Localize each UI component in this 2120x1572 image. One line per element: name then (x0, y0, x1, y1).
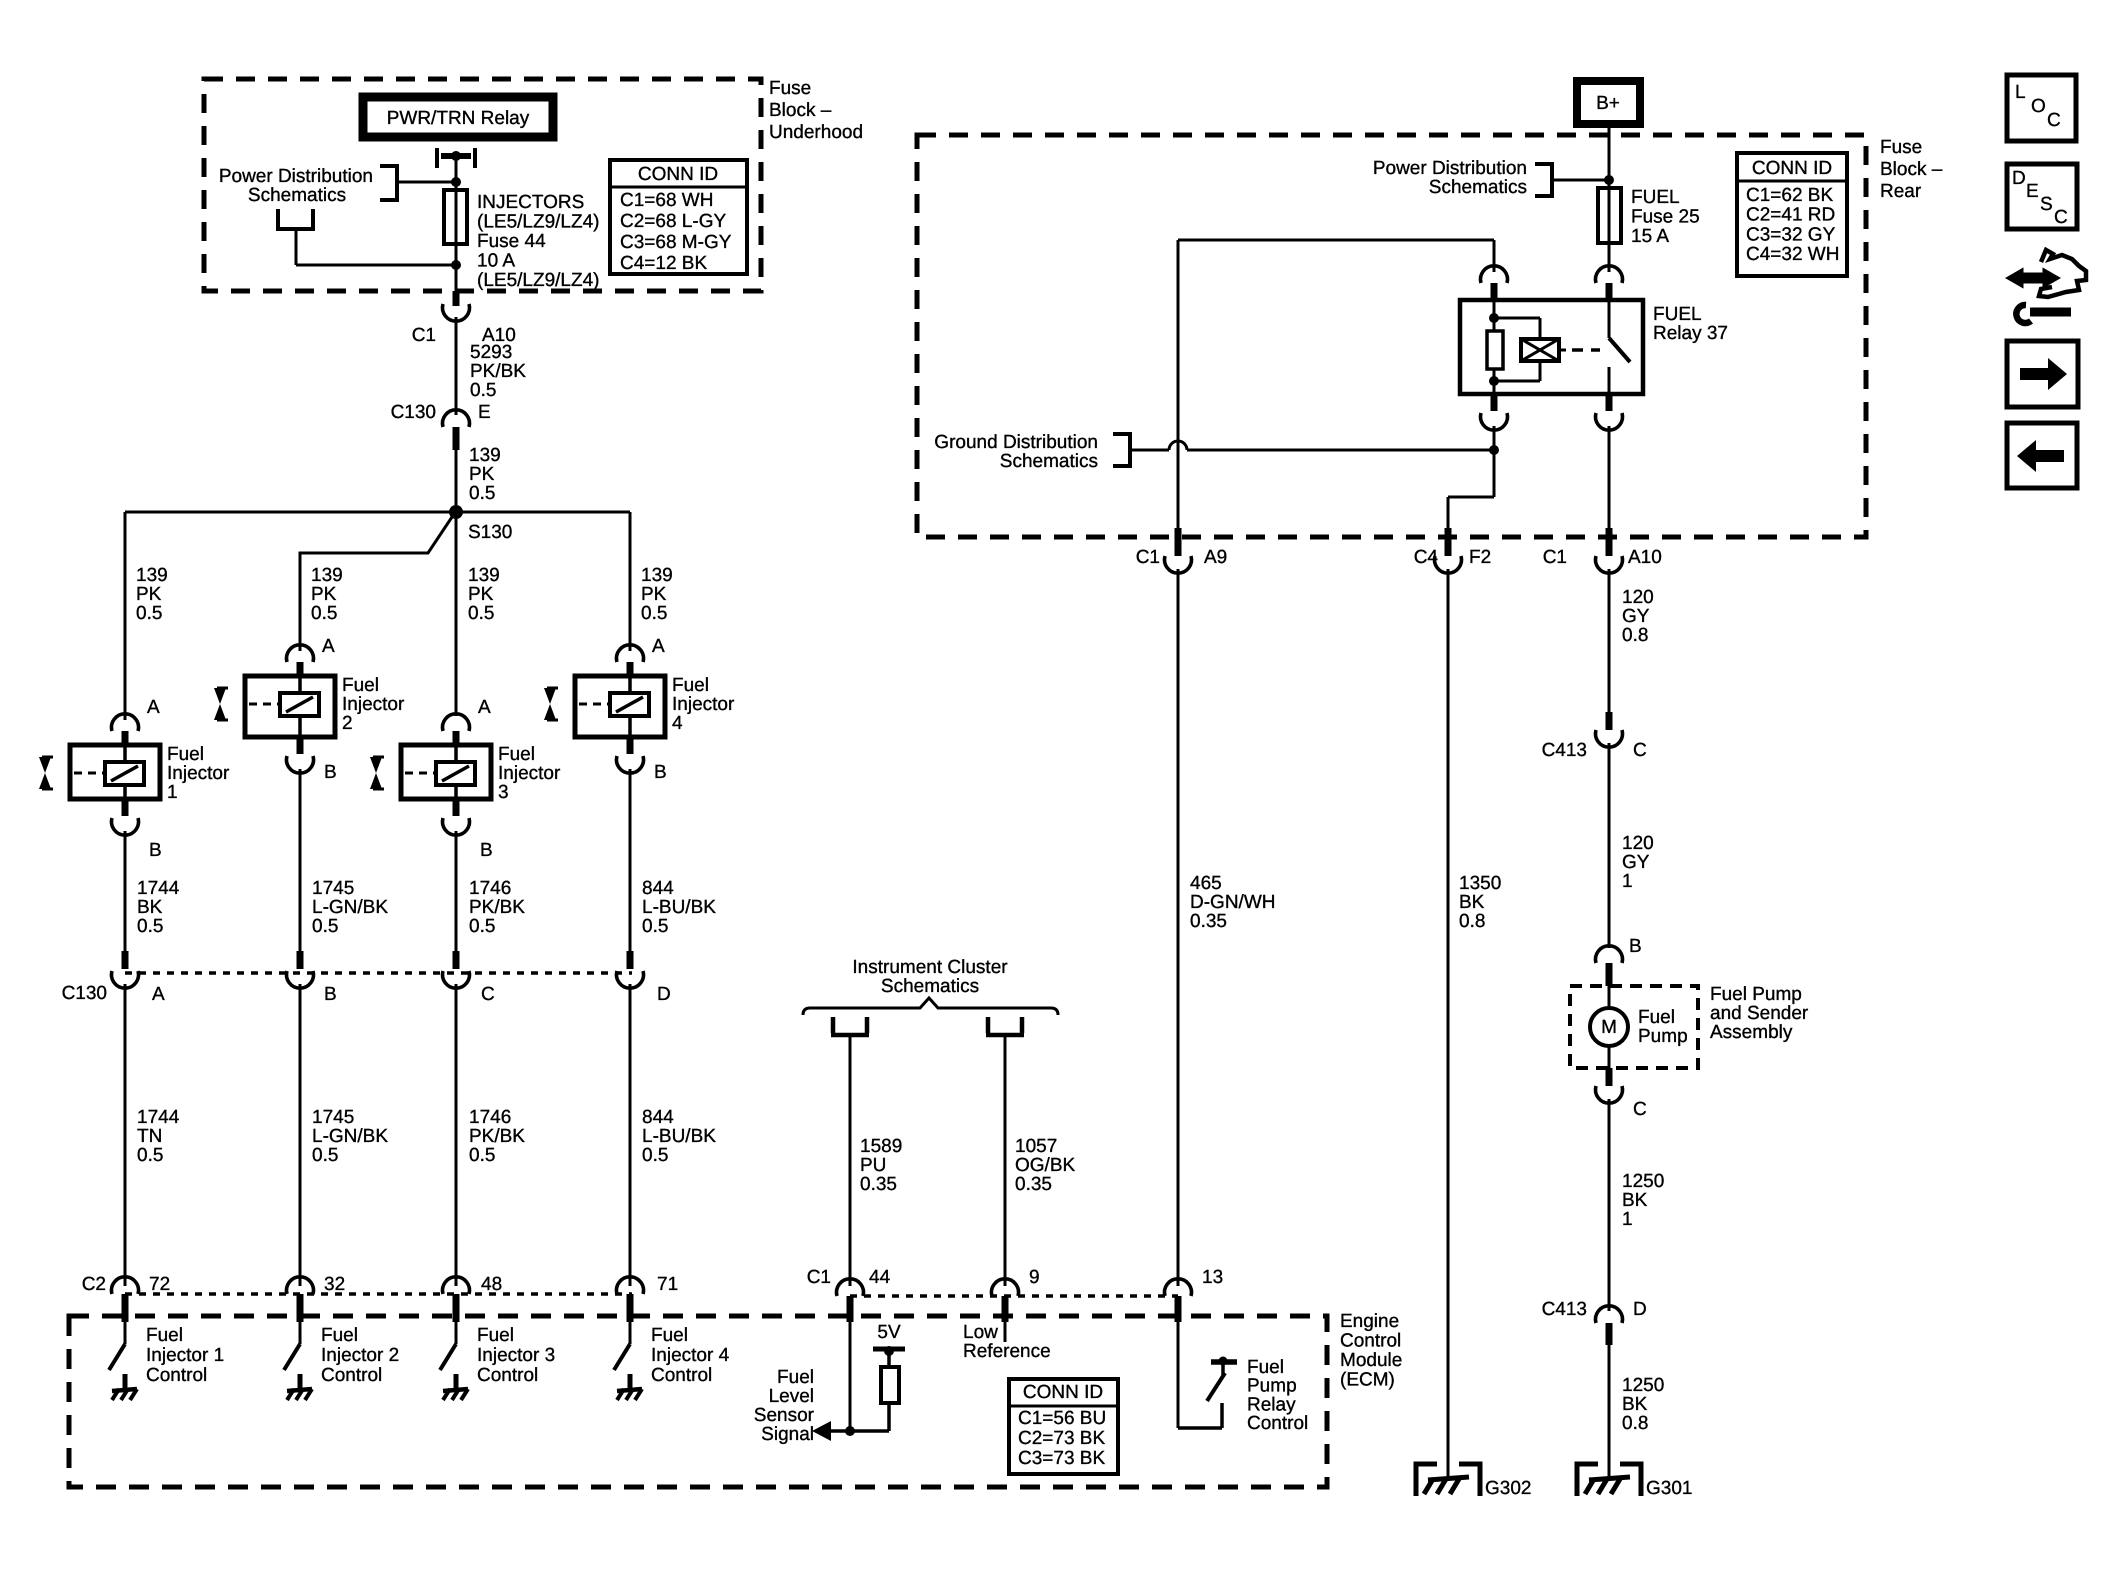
svg-text:139: 139 (136, 565, 168, 586)
svg-text:S: S (2040, 194, 2053, 215)
svg-text:1746: 1746 (469, 1107, 511, 1128)
svg-text:BK: BK (1622, 1394, 1648, 1415)
svg-text:0.8: 0.8 (1459, 911, 1485, 932)
wire 1250 BK 1 (1608, 1099, 1611, 1311)
fuse 25 (FUEL 15A) (1598, 188, 1621, 243)
icon previous-page arrow button (2007, 423, 2077, 488)
svg-text:1589: 1589 (860, 1136, 902, 1157)
svg-text:1250: 1250 (1622, 1375, 1664, 1396)
svg-text:A: A (147, 697, 160, 718)
svg-text:Schematics: Schematics (881, 976, 979, 997)
svg-text:Module: Module (1340, 1350, 1402, 1371)
svg-text:0.5: 0.5 (469, 483, 495, 504)
svg-text:INJECTORS: INJECTORS (477, 192, 584, 213)
svg-text:BK: BK (137, 897, 163, 918)
svg-text:120: 120 (1622, 587, 1654, 608)
connector C130 row pins A-D (122, 951, 129, 969)
brace to instrument cluster (803, 998, 1058, 1015)
svg-text:C413: C413 (1542, 1299, 1587, 1320)
svg-text:Instrument Cluster: Instrument Cluster (852, 957, 1008, 978)
icon DESC button (2007, 164, 2077, 229)
svg-text:PK/BK: PK/BK (469, 1126, 525, 1147)
svg-text:C1: C1 (1543, 547, 1567, 568)
connector C1 pin A9 (rear exit) (1175, 528, 1182, 556)
svg-text:Block –: Block – (1880, 159, 1943, 180)
svg-text:TN: TN (137, 1126, 162, 1147)
svg-text:0.35: 0.35 (1190, 911, 1227, 932)
svg-text:FUEL: FUEL (1653, 304, 1702, 325)
svg-text:1057: 1057 (1015, 1136, 1057, 1157)
wire bracket to B+ feed (1552, 179, 1609, 182)
wire 1350 BK 0.8 (1447, 569, 1450, 1478)
svg-text:0.8: 0.8 (1622, 625, 1648, 646)
svg-text:10 A: 10 A (477, 251, 515, 272)
svg-text:Fuse 25: Fuse 25 (1631, 207, 1700, 228)
wire 465 D-GN/WH 0.35 (1177, 569, 1180, 1286)
resistor 5V pull-up (887, 1351, 891, 1367)
svg-text:C2: C2 (82, 1274, 106, 1295)
wire B+ to fuse 25 (1608, 124, 1611, 190)
svg-text:C2=73 BK: C2=73 BK (1018, 1428, 1105, 1449)
fuse 44 (INJECTORS 10A) (444, 190, 467, 244)
svg-text:PK/BK: PK/BK (470, 361, 526, 382)
svg-text:(ECM): (ECM) (1340, 1370, 1395, 1391)
junction dot below fuse 44 (451, 260, 461, 270)
connector C4 pin F2 (rear exit) (1445, 528, 1452, 556)
fuel injector 2 control driver + ground (284, 1344, 300, 1370)
svg-text:A: A (322, 636, 335, 657)
svg-text:0.35: 0.35 (1015, 1174, 1052, 1195)
fuel injector 4 control driver + ground (614, 1344, 630, 1370)
icon jump-to-wiring (arrows and wrench) (2008, 270, 2058, 286)
svg-text:CONN ID: CONN ID (638, 164, 718, 185)
svg-text:Fuel: Fuel (1638, 1007, 1675, 1028)
wire branch to injector 2 column (300, 517, 452, 651)
splice S130 (449, 505, 463, 519)
svg-text:C: C (481, 984, 495, 1005)
relay contact symbol under PWR/TRN Relay (435, 148, 439, 168)
wire 139 PK 0.5 branch 3 (455, 512, 458, 716)
svg-text:PK: PK (469, 464, 495, 485)
svg-text:E: E (2026, 181, 2039, 202)
svg-text:D-GN/WH: D-GN/WH (1190, 892, 1275, 913)
svg-text:OG/BK: OG/BK (1015, 1155, 1076, 1176)
instrument cluster component bracket (fuel gauge) (831, 1017, 869, 1035)
svg-text:Schematics: Schematics (248, 185, 346, 206)
wire PWR/TRN relay to fuse 44 (455, 158, 458, 190)
svg-text:32: 32 (324, 1274, 345, 1295)
svg-text:C1=62 BK: C1=62 BK (1746, 185, 1833, 206)
svg-text:Low: Low (963, 1322, 998, 1343)
fuel pump and sender assembly dashed box (1570, 986, 1698, 1068)
fuel pump relay control driver (1177, 1322, 1180, 1428)
connector C1 pin A10 (rear exit) (1606, 528, 1613, 556)
svg-text:B: B (324, 762, 337, 783)
svg-text:1746: 1746 (469, 878, 511, 899)
svg-text:1745: 1745 (312, 1107, 354, 1128)
svg-text:0.5: 0.5 (469, 1145, 495, 1166)
svg-text:Block –: Block – (769, 100, 832, 121)
junction dot B+ feed (1604, 175, 1614, 185)
connector C1 (ECM) dashed row line (850, 1294, 1178, 1298)
wire relay switch to C1 A10 (1608, 426, 1611, 528)
connector C413 pin C (1606, 712, 1613, 730)
svg-text:Fuel: Fuel (477, 1325, 514, 1346)
svg-text:Assembly: Assembly (1710, 1022, 1793, 1043)
svg-text:71: 71 (657, 1274, 678, 1295)
svg-text:0.5: 0.5 (468, 603, 494, 624)
svg-text:A10: A10 (1628, 547, 1662, 568)
battery feed B+ bold box (1577, 81, 1640, 124)
svg-text:Injector: Injector (167, 763, 230, 784)
low reference stub (1004, 1322, 1007, 1342)
PWR/TRN Relay bold box (363, 97, 553, 137)
svg-text:B+: B+ (1596, 93, 1620, 114)
svg-text:Injector: Injector (672, 694, 735, 715)
svg-text:C: C (2047, 110, 2061, 131)
svg-text:L-BU/BK: L-BU/BK (642, 1126, 716, 1147)
svg-text:0.5: 0.5 (137, 1145, 163, 1166)
svg-text:PWR/TRN Relay: PWR/TRN Relay (387, 108, 530, 129)
svg-text:C130: C130 (62, 983, 107, 1004)
svg-text:L-GN/BK: L-GN/BK (312, 897, 388, 918)
svg-text:Control: Control (146, 1365, 207, 1386)
svg-text:Fuel: Fuel (777, 1367, 814, 1388)
svg-text:L-BU/BK: L-BU/BK (642, 897, 716, 918)
svg-text:G302: G302 (1485, 1478, 1531, 1499)
svg-text:A9: A9 (1204, 547, 1227, 568)
svg-text:Fuse: Fuse (769, 78, 811, 99)
wire fuse 25 to relay (1608, 243, 1611, 272)
connector C1 pin A10 (underhood exit) (453, 291, 460, 306)
svg-text:Fuse: Fuse (1880, 137, 1922, 158)
svg-text:Engine: Engine (1340, 1311, 1399, 1332)
svg-text:Control: Control (477, 1365, 538, 1386)
svg-text:C2=68 L-GY: C2=68 L-GY (620, 211, 726, 232)
svg-text:139: 139 (311, 565, 343, 586)
off-page bracket to Power Distribution (lower) (276, 209, 315, 229)
svg-text:A: A (478, 697, 491, 718)
svg-text:S130: S130 (468, 522, 512, 543)
svg-text:Level: Level (769, 1386, 814, 1407)
svg-text:C413: C413 (1542, 740, 1587, 761)
svg-text:1: 1 (1622, 1209, 1633, 1230)
svg-text:120: 120 (1622, 833, 1654, 854)
svg-text:C4: C4 (1414, 547, 1439, 568)
junction dot above fuse 44 (451, 177, 461, 187)
svg-text:Relay 37: Relay 37 (1653, 323, 1728, 344)
svg-text:139: 139 (468, 565, 500, 586)
svg-text:CONN ID: CONN ID (1752, 158, 1832, 179)
svg-text:C1: C1 (412, 325, 436, 346)
connector fuel relay pin 86 (top left) (1481, 266, 1508, 283)
CONN ID table (underhood) (610, 160, 747, 274)
svg-text:C: C (2054, 207, 2068, 228)
svg-text:C4=32 WH: C4=32 WH (1746, 244, 1839, 265)
ground G301 (1577, 1464, 1641, 1496)
svg-text:Rear: Rear (1880, 181, 1922, 202)
relay switch (1608, 301, 1611, 338)
ECM dashed enclosure (69, 1316, 1327, 1487)
svg-text:844: 844 (642, 878, 674, 899)
wire 5293 PK/BK 0.5 (455, 317, 458, 415)
connector fuel pump pin B (1596, 946, 1623, 963)
svg-text:Fuel Pump: Fuel Pump (1710, 984, 1802, 1005)
svg-text:C3=68 M-GY: C3=68 M-GY (620, 232, 732, 253)
off-page bracket ground distribution (1113, 434, 1130, 466)
CONN ID table (rear) (1737, 153, 1847, 276)
svg-text:13: 13 (1202, 1267, 1223, 1288)
svg-text:FUEL: FUEL (1631, 187, 1680, 208)
svg-text:0.5: 0.5 (312, 916, 338, 937)
instrument cluster component bracket (low ref) (986, 1017, 1024, 1035)
svg-text:Fuse 44: Fuse 44 (477, 231, 546, 252)
connector C2 row pins (112, 1277, 139, 1294)
connector C130 dashed row line (125, 971, 632, 975)
svg-text:C130: C130 (391, 402, 436, 423)
wire relay coil feed from ECM side (1493, 240, 1496, 272)
svg-text:PK/BK: PK/BK (469, 897, 525, 918)
svg-text:C3=32 GY: C3=32 GY (1746, 224, 1836, 245)
svg-text:Underhood: Underhood (769, 122, 863, 143)
svg-text:139: 139 (641, 565, 673, 586)
svg-text:B: B (324, 984, 337, 1005)
svg-text:Schematics: Schematics (1000, 451, 1098, 472)
svg-text:C: C (1633, 1099, 1647, 1120)
svg-text:9: 9 (1029, 1267, 1040, 1288)
off-page bracket to Power Distribution (upper) (380, 166, 397, 200)
svg-text:0.8: 0.8 (1622, 1413, 1648, 1434)
svg-text:C1=68 WH: C1=68 WH (620, 190, 713, 211)
connector fuel relay pin 30 (bottom right) (1606, 394, 1613, 411)
svg-text:5293: 5293 (470, 342, 512, 363)
svg-text:C2=41 RD: C2=41 RD (1746, 205, 1835, 226)
svg-text:C1: C1 (1136, 547, 1160, 568)
svg-text:Control: Control (1247, 1413, 1308, 1434)
connector C1 pin 13 (1165, 1279, 1192, 1296)
wire 1057 OG/BK 0.35 (1004, 1037, 1007, 1286)
svg-text:G301: G301 (1646, 1478, 1692, 1499)
svg-text:Ground Distribution: Ground Distribution (934, 432, 1098, 453)
svg-text:Fuel: Fuel (498, 744, 535, 765)
svg-text:C4=12 BK: C4=12 BK (620, 253, 707, 274)
wire fuel level sensor signal (849, 1322, 852, 1431)
fuel relay 37 box (1460, 300, 1643, 394)
svg-text:C1: C1 (807, 1267, 831, 1288)
wire 120 GY 1 (1608, 743, 1611, 948)
svg-text:Schematics: Schematics (1429, 177, 1527, 198)
svg-text:Injector: Injector (498, 763, 561, 784)
svg-text:Fuel: Fuel (651, 1325, 688, 1346)
svg-text:Injector 3: Injector 3 (477, 1345, 555, 1366)
svg-text:1744: 1744 (137, 878, 180, 899)
svg-text:44: 44 (869, 1267, 891, 1288)
ground G302 (1416, 1464, 1480, 1496)
svg-text:Signal: Signal (761, 1424, 814, 1445)
svg-text:Control: Control (651, 1365, 712, 1386)
wire 1589 PU 0.35 (849, 1037, 852, 1286)
svg-text:1744: 1744 (137, 1107, 180, 1128)
svg-text:Pump: Pump (1638, 1026, 1688, 1047)
wire bracket to main feed (397, 181, 456, 184)
svg-text:139: 139 (469, 445, 501, 466)
svg-text:and Sender: and Sender (1710, 1003, 1809, 1024)
svg-text:72: 72 (149, 1274, 170, 1295)
junction dot relay coil ground (1489, 445, 1499, 455)
svg-text:A: A (652, 636, 665, 657)
wire through fuse 44 (455, 190, 458, 291)
relay coil (1493, 301, 1496, 331)
svg-text:5V: 5V (877, 1322, 901, 1343)
svg-text:D: D (1633, 1299, 1647, 1320)
svg-text:GY: GY (1622, 852, 1650, 873)
connector C413 pin D (1596, 1306, 1623, 1323)
svg-text:0.5: 0.5 (470, 380, 496, 401)
fuse block - rear dashed enclosure (917, 135, 1866, 537)
svg-text:Power Distribution: Power Distribution (219, 166, 373, 187)
wire ground distribution with hop over coil feed (1130, 449, 1169, 452)
connector C2 dashed row line (125, 1292, 632, 1296)
svg-text:4: 4 (672, 713, 683, 734)
svg-text:1745: 1745 (312, 878, 354, 899)
svg-text:D: D (657, 984, 671, 1005)
svg-text:GY: GY (1622, 606, 1650, 627)
connector C130 pin E (443, 410, 470, 427)
svg-text:B: B (654, 762, 667, 783)
svg-text:L: L (2015, 82, 2026, 103)
svg-text:1: 1 (1622, 871, 1633, 892)
svg-text:465: 465 (1190, 873, 1222, 894)
svg-text:C3=73 BK: C3=73 BK (1018, 1448, 1105, 1469)
wire splice bus to injectors (125, 511, 630, 514)
svg-text:B: B (1629, 936, 1642, 957)
connector C1 pin 9 (992, 1279, 1019, 1296)
svg-text:2: 2 (342, 713, 353, 734)
wire 139 PK 0.5 branch 4 (629, 512, 632, 651)
svg-text:Fuel: Fuel (672, 675, 709, 696)
svg-text:Control: Control (1340, 1331, 1401, 1352)
svg-text:Fuel: Fuel (146, 1325, 183, 1346)
svg-text:0.35: 0.35 (860, 1174, 897, 1195)
svg-text:Control: Control (321, 1365, 382, 1386)
svg-text:0.5: 0.5 (137, 916, 163, 937)
svg-text:0.5: 0.5 (642, 916, 668, 937)
svg-text:Power Distribution: Power Distribution (1373, 158, 1527, 179)
fuel injector 3 control driver + ground (440, 1344, 456, 1370)
svg-text:Fuel: Fuel (321, 1325, 358, 1346)
off-page bracket power distribution (rear) (1535, 164, 1552, 196)
svg-text:B: B (480, 840, 493, 861)
connector fuel relay pin 87 (top right) (1596, 266, 1623, 283)
wire 139 PK 0.5 branch 1 (124, 512, 127, 720)
fuel injector 1 control driver + ground (109, 1344, 125, 1370)
svg-text:PK: PK (468, 584, 494, 605)
svg-text:3: 3 (498, 782, 509, 803)
svg-text:PK: PK (136, 584, 162, 605)
svg-text:0.5: 0.5 (642, 1145, 668, 1166)
svg-text:C: C (1633, 740, 1647, 761)
svg-text:B: B (149, 840, 162, 861)
wire 139 PK 0.5 to splice (455, 450, 458, 512)
svg-text:Fuel: Fuel (342, 675, 379, 696)
svg-text:BK: BK (1459, 892, 1485, 913)
svg-text:Fuel: Fuel (167, 744, 204, 765)
svg-text:Sensor: Sensor (754, 1405, 815, 1426)
fuel pump motor (1608, 986, 1611, 1008)
svg-text:PK: PK (641, 584, 667, 605)
svg-text:1350: 1350 (1459, 873, 1501, 894)
arrow fuel level sensor signal (812, 1421, 831, 1441)
svg-text:L-GN/BK: L-GN/BK (312, 1126, 388, 1147)
relay armature linkage (1494, 317, 1540, 320)
svg-text:0.5: 0.5 (312, 1145, 338, 1166)
svg-text:BK: BK (1622, 1190, 1648, 1211)
svg-text:0.5: 0.5 (469, 916, 495, 937)
svg-text:0.5: 0.5 (311, 603, 337, 624)
svg-text:0.5: 0.5 (641, 603, 667, 624)
svg-text:Injector: Injector (342, 694, 405, 715)
svg-text:CONN ID: CONN ID (1023, 1382, 1103, 1403)
svg-text:Injector 2: Injector 2 (321, 1345, 399, 1366)
svg-text:Injector 1: Injector 1 (146, 1345, 224, 1366)
wire lower bracket to fuse output (295, 229, 298, 265)
connector fuel relay pin 85 (bottom left) (1491, 394, 1498, 411)
svg-text:(LE5/LZ9/LZ4): (LE5/LZ9/LZ4) (477, 270, 600, 291)
svg-text:1250: 1250 (1622, 1171, 1664, 1192)
svg-text:1: 1 (167, 782, 178, 803)
svg-text:M: M (1601, 1017, 1617, 1038)
CONN ID table (ECM) (1009, 1379, 1118, 1474)
svg-text:PK: PK (311, 584, 337, 605)
wire 120 GY 0.8 (1608, 569, 1611, 712)
svg-text:PU: PU (860, 1155, 886, 1176)
wire 1250 BK 0.8 (1608, 1345, 1611, 1478)
svg-text:Injector 4: Injector 4 (651, 1345, 730, 1366)
svg-text:A: A (152, 984, 165, 1005)
svg-text:48: 48 (481, 1274, 502, 1295)
svg-text:15 A: 15 A (1631, 226, 1669, 247)
svg-text:(LE5/LZ9/LZ4): (LE5/LZ9/LZ4) (477, 212, 600, 233)
svg-text:O: O (2031, 96, 2046, 117)
icon next-page arrow button (2007, 341, 2078, 407)
junction dot sensor signal (845, 1426, 855, 1436)
svg-text:C1=56 BU: C1=56 BU (1018, 1408, 1106, 1429)
fuse block - underhood dashed enclosure (204, 79, 761, 291)
icon LOC button (2007, 75, 2076, 141)
svg-text:E: E (478, 402, 491, 423)
svg-text:844: 844 (642, 1107, 674, 1128)
wire relay coil to C4 F2 (1493, 426, 1496, 497)
svg-text:D: D (2012, 168, 2026, 189)
connector C1 pin 44 (837, 1279, 864, 1296)
svg-text:F2: F2 (1469, 547, 1491, 568)
connector fuel pump pin C (1606, 1068, 1613, 1086)
svg-text:0.5: 0.5 (136, 603, 162, 624)
svg-text:Reference: Reference (963, 1341, 1051, 1362)
